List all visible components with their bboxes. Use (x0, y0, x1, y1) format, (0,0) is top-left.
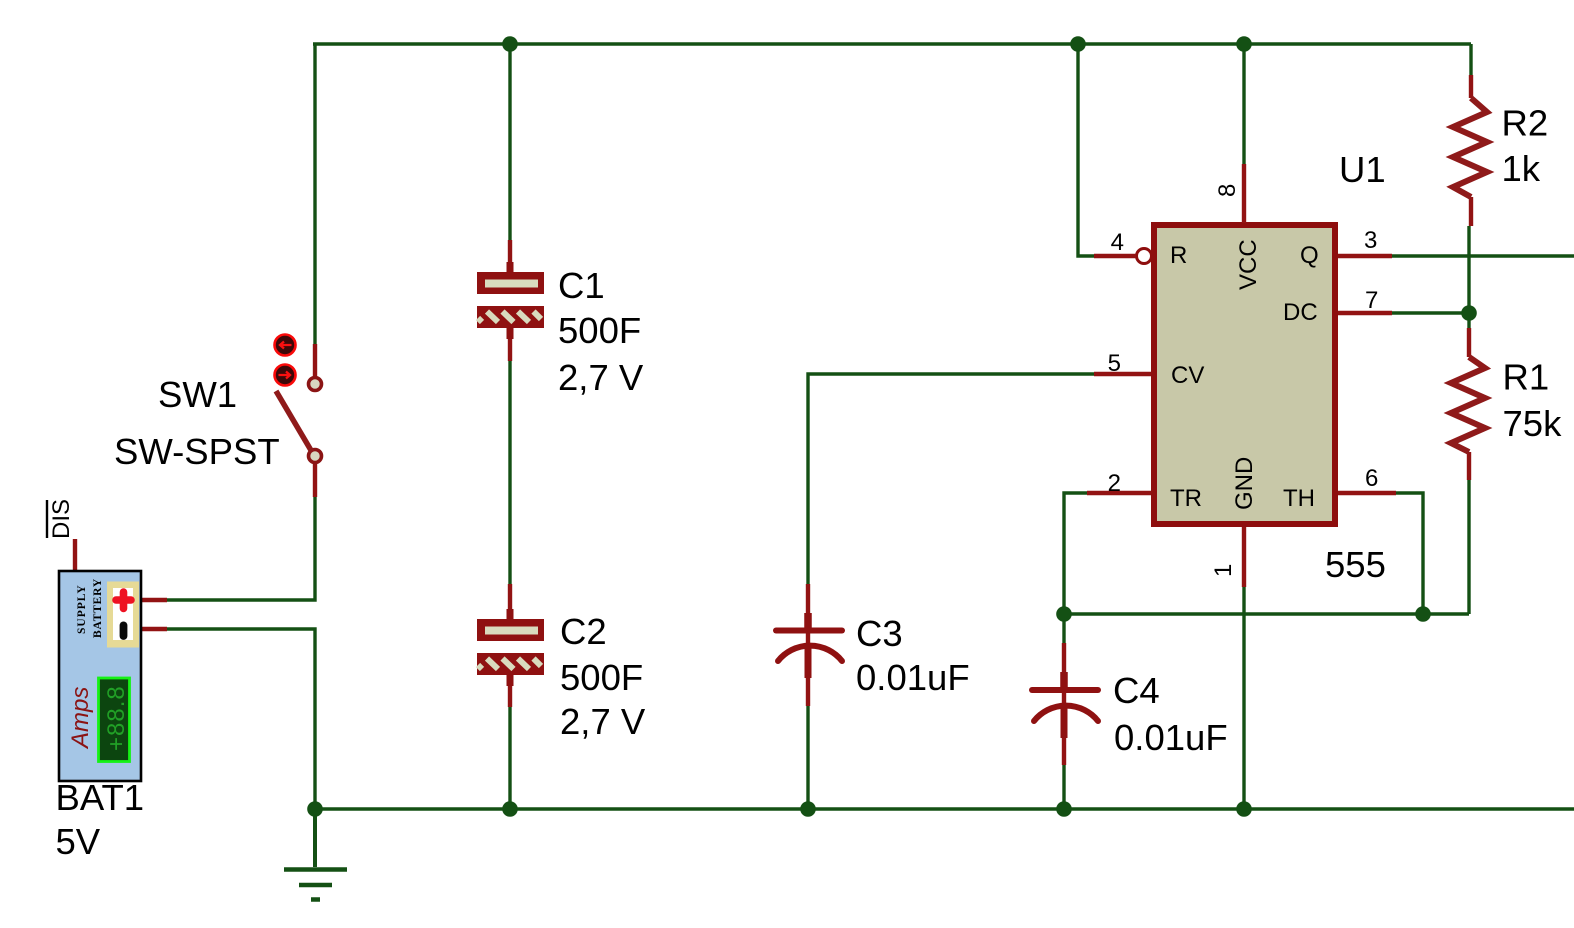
svg-text:C2: C2 (560, 611, 607, 652)
svg-text:GND: GND (1231, 457, 1258, 510)
node DC divider (1461, 305, 1477, 321)
node top C1 (502, 36, 518, 52)
wire mid horizontal (1064, 612, 1469, 615)
svg-text:500F: 500F (560, 657, 643, 698)
wire CV to C3 (808, 374, 1095, 584)
pin 4 stub (1094, 254, 1136, 258)
capacitor C1 (477, 240, 544, 361)
wire TH branch (1396, 493, 1423, 614)
wire TR branch (1064, 493, 1088, 614)
capacitor C3 (776, 584, 842, 706)
wire switch bottom to battery plus (167, 497, 315, 600)
wire switch top vertical (313, 44, 316, 345)
wire battery minus down (167, 629, 315, 809)
wire C1 top vertical (508, 44, 511, 240)
pin 4 bubble (1137, 249, 1152, 264)
svg-text:CV: CV (1171, 362, 1204, 389)
svg-text:BATTERY: BATTERY (92, 578, 104, 638)
svg-text:1: 1 (1210, 564, 1237, 577)
wire R1 bottom vertical (1467, 480, 1470, 614)
svg-text:2,7 V: 2,7 V (560, 701, 646, 742)
svg-text:555: 555 (1325, 544, 1386, 585)
svg-text:Q: Q (1300, 242, 1319, 269)
svg-text:U1: U1 (1339, 149, 1386, 190)
wire VCC pin8 vertical (1242, 44, 1245, 165)
wire C4 bottom (1062, 764, 1065, 809)
svg-text:500F: 500F (558, 310, 641, 351)
svg-text:3: 3 (1364, 227, 1377, 254)
capacitor C2 (477, 584, 544, 707)
svg-text:0.01uF: 0.01uF (1114, 717, 1228, 758)
wire DC to divider (1392, 311, 1469, 314)
node bus C2 (502, 801, 518, 817)
pin 6 stub (1338, 491, 1396, 495)
svg-text:R: R (1170, 242, 1187, 269)
svg-text:R2: R2 (1502, 103, 1549, 144)
node top pin4 (1070, 36, 1086, 52)
node bus C4 (1056, 801, 1072, 817)
wire C2 bottom (508, 707, 511, 809)
wire pin4 branch (1078, 44, 1094, 256)
svg-text:C3: C3 (856, 613, 903, 654)
svg-text:75k: 75k (1503, 403, 1563, 444)
wire bottom bus (315, 807, 1574, 810)
pin 2 stub (1087, 491, 1151, 495)
svg-text:+88.8: +88.8 (103, 685, 130, 751)
svg-text:C1: C1 (558, 265, 605, 306)
svg-text:6: 6 (1365, 465, 1378, 492)
svg-text:2,7 V: 2,7 V (558, 357, 644, 398)
svg-text:SW-SPST: SW-SPST (114, 431, 280, 472)
svg-text:VCC: VCC (1235, 239, 1262, 290)
wire GND pin1 down (1242, 587, 1245, 809)
svg-text:SW1: SW1 (158, 374, 237, 415)
svg-text:DIS: DIS (48, 499, 75, 539)
pin 3 stub (1338, 254, 1392, 258)
battery BAT1 (59, 539, 167, 781)
node TR C4 (1056, 606, 1072, 622)
node TH mid (1415, 606, 1431, 622)
svg-text:4: 4 (1111, 229, 1124, 256)
svg-text:Amps: Amps (67, 687, 94, 750)
svg-text:BAT1: BAT1 (56, 777, 145, 818)
node bus C3 (800, 801, 816, 817)
wire R2 to R1 vertical (1467, 226, 1470, 328)
IC U1 555 timer body (1154, 225, 1335, 524)
svg-text:C4: C4 (1113, 670, 1160, 711)
svg-text:2: 2 (1108, 470, 1121, 497)
resistor R2 (1453, 75, 1487, 226)
svg-text:1k: 1k (1502, 148, 1541, 189)
svg-text:TR: TR (1170, 485, 1202, 512)
pin 5 stub (1094, 372, 1151, 376)
node bus battery (307, 801, 323, 817)
svg-text:TH: TH (1283, 485, 1315, 512)
wire C3 bottom (806, 705, 809, 809)
pin 7 stub (1338, 311, 1392, 315)
switch SW1 (275, 335, 322, 498)
svg-text:5V: 5V (56, 821, 101, 862)
wire R2 top corner (1469, 44, 1472, 76)
svg-text:0.01uF: 0.01uF (856, 657, 970, 698)
ground (284, 809, 347, 900)
node top VCC (1236, 36, 1252, 52)
wire Q output (1392, 254, 1574, 257)
pin 8 stub (1242, 164, 1246, 223)
resistor R1 (1451, 328, 1485, 480)
svg-text:DC: DC (1283, 299, 1318, 326)
svg-text:R1: R1 (1503, 357, 1550, 398)
wire C4 top (1062, 614, 1065, 646)
svg-text:7: 7 (1365, 287, 1378, 314)
label DIS (47, 499, 75, 539)
svg-text:SUPPLY: SUPPLY (76, 584, 88, 634)
capacitor C4 (1032, 643, 1098, 765)
svg-text:5: 5 (1108, 350, 1121, 377)
node bus GND1 (1236, 801, 1252, 817)
svg-text:8: 8 (1214, 184, 1241, 197)
pin 1 stub (1242, 527, 1246, 587)
wire C1 to C2 (508, 361, 511, 584)
wire top bus (313, 42, 1471, 45)
